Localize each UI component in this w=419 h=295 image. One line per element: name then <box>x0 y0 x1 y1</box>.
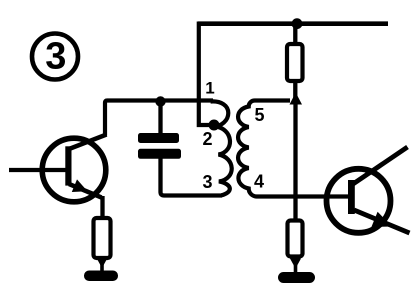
transistor Q1 emitter arrow <box>72 179 88 192</box>
figure label 3 (circled) <box>32 34 78 80</box>
transistor Q2 collector stroke <box>353 147 408 184</box>
wire: R2 down to junction <box>293 81 297 100</box>
svg-text:3: 3 <box>202 172 212 192</box>
node: junction dot at capacitor tap <box>155 96 165 106</box>
transformer primary winding (pins 1-2-3) <box>211 101 232 195</box>
transistor Q1 collector stroke <box>69 135 107 150</box>
transistor Q2 base bar <box>348 180 355 214</box>
transistor Q2 emitter arrow <box>371 212 392 227</box>
wire: collector of Q1 up and right to transformer <box>105 101 213 136</box>
transistor Q1 base bar <box>65 146 71 185</box>
wire: Q1 emitter down to resistor <box>100 196 104 219</box>
wire: base lead of Q1 <box>9 168 66 172</box>
node: junction (arrow blob) at winding pin 5 <box>290 93 303 105</box>
transistor Q1 circle <box>42 138 106 202</box>
svg-text:3: 3 <box>45 35 66 77</box>
resistor R1 (Q1 emitter) <box>94 218 111 258</box>
transistor Q1 emitter stroke <box>69 184 102 198</box>
wire: junction down through pin 4 cross to resistor R3 <box>293 100 297 221</box>
top supply rail <box>198 21 388 26</box>
ground (left) <box>84 271 118 282</box>
transformer secondary winding (pins 5-4) <box>238 100 350 196</box>
svg-text:4: 4 <box>254 172 264 192</box>
wire: R3 to ground with arrow blob <box>294 256 298 274</box>
node: winding tap dot (pin 2) <box>209 120 220 131</box>
capacitor C1 plates <box>138 133 179 143</box>
transistor Q2 emitter stroke <box>354 210 410 233</box>
capacitor C1 bottom lead to winding pin 3 <box>161 159 223 196</box>
resistor R2 (collector load) <box>287 44 303 81</box>
wire: vertical from top rail down to winding tap <box>199 22 210 126</box>
transistor Q2 circle <box>327 169 391 233</box>
svg-text:5: 5 <box>254 105 264 125</box>
ground (right) <box>278 272 315 283</box>
svg-text:2: 2 <box>202 129 212 149</box>
node: junction dot on top rail <box>292 18 303 29</box>
resistor R3 (Q2 emitter/base bias) <box>288 221 303 257</box>
svg-text:1: 1 <box>205 79 214 98</box>
wire: top rail dot down to resistor R2 <box>293 23 297 45</box>
capacitor C1 top lead <box>158 101 162 134</box>
wire: R1 to ground with arrow blob <box>100 258 104 273</box>
